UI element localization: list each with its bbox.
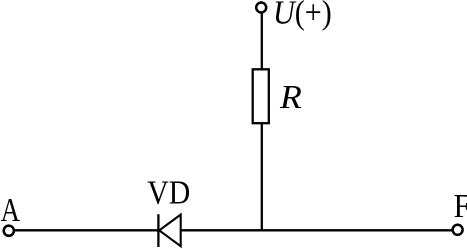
- terminal F: [453, 225, 463, 235]
- svg-text:VD: VD: [147, 174, 190, 211]
- svg-text:U(+): U(+): [273, 0, 332, 31]
- label VD: [147, 174, 190, 211]
- svg-text:A: A: [1, 191, 20, 229]
- wire: terminal U(+) down to resistor: [261, 13, 263, 70]
- label A: [1, 191, 20, 229]
- wire: resistor down to horizontal bus: [261, 124, 263, 231]
- wire: horizontal bus A to F: [15, 229, 453, 231]
- label U(+): [273, 0, 332, 31]
- svg-text:R: R: [279, 78, 302, 116]
- label F: [454, 186, 467, 224]
- terminal A: [4, 226, 14, 236]
- terminal U(+): [256, 3, 266, 13]
- resistor R: [253, 69, 269, 123]
- label R: [279, 78, 302, 116]
- svg-text:F: F: [454, 186, 467, 224]
- diode VD: [158, 214, 180, 247]
